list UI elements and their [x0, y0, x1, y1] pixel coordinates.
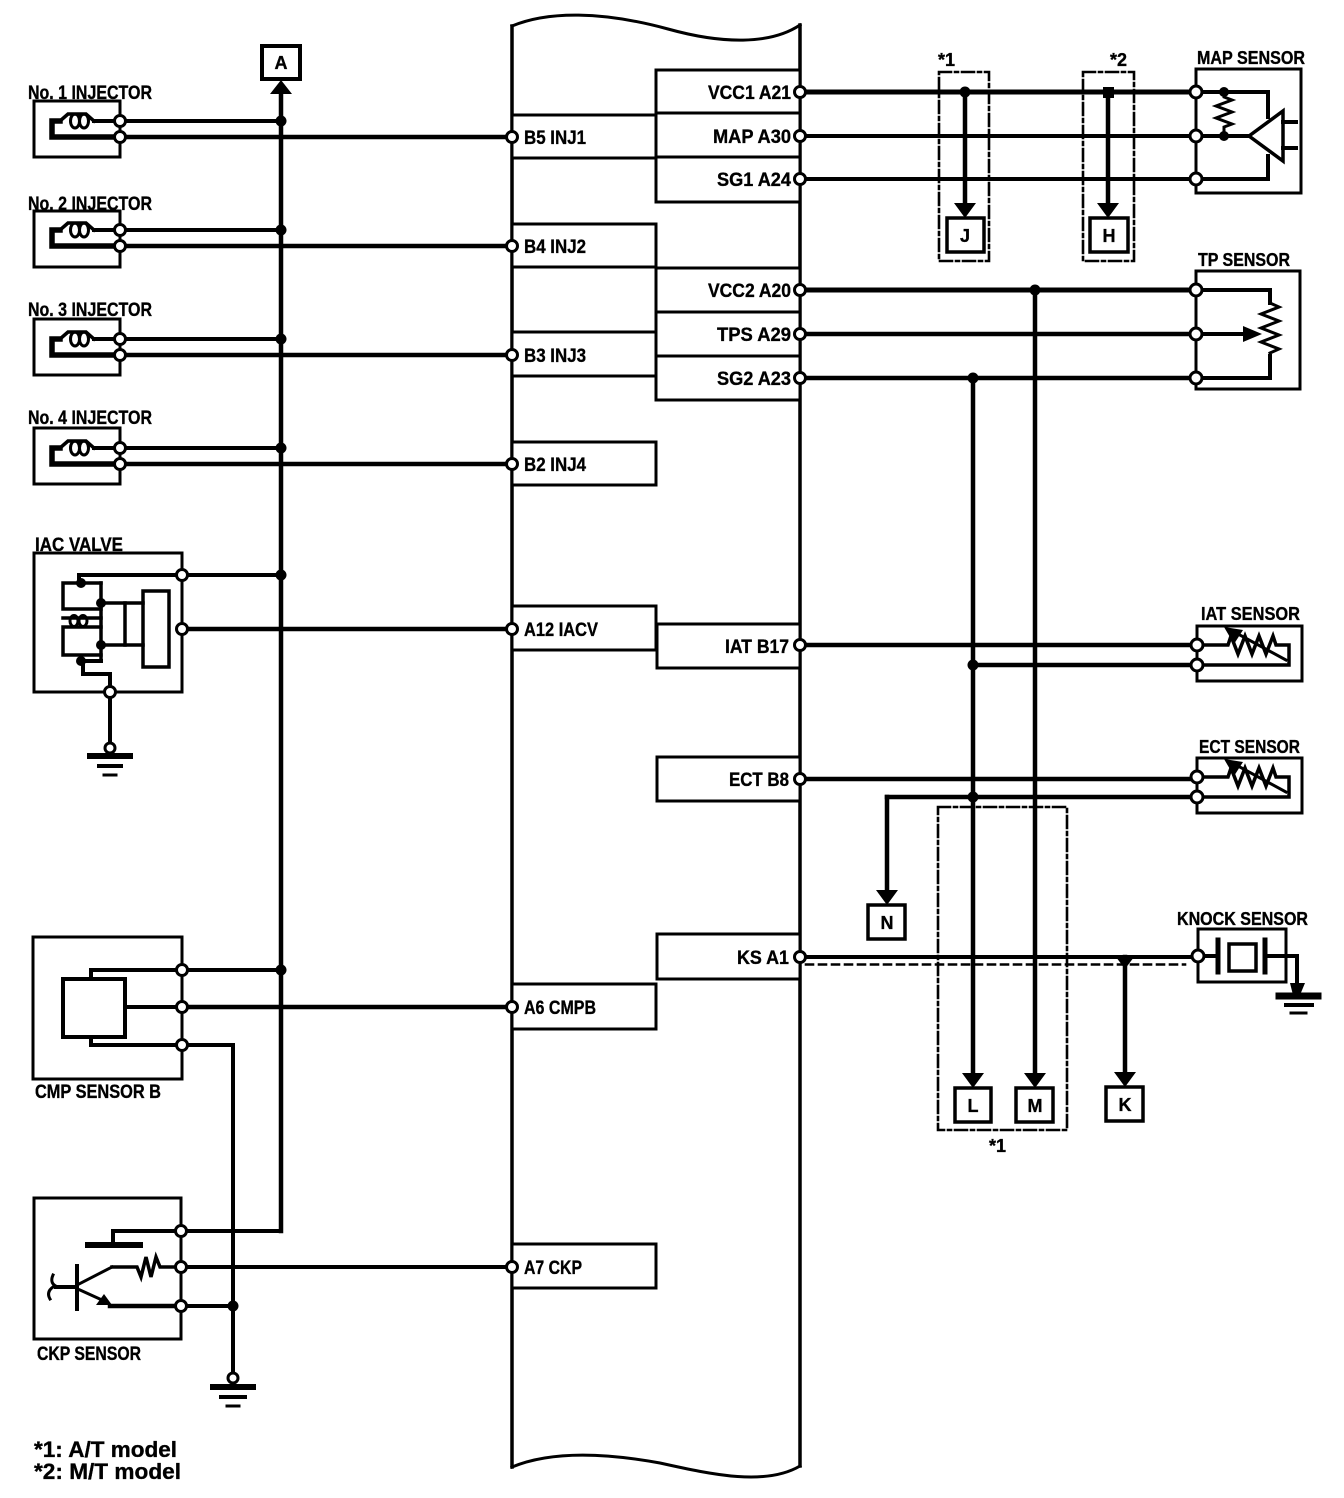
CKP magnet hook: [56, 1285, 77, 1289]
svg-text:MAP SENSOR: MAP SENSOR: [1197, 48, 1305, 68]
wire M drop from VCC2: [1033, 290, 1038, 1074]
IAC valve winding loop B: [63, 627, 101, 655]
pin box A12 IACV: [512, 606, 656, 650]
arrow into N: [876, 890, 898, 905]
pin box B2 INJ4: [512, 442, 656, 485]
CMP sensor B outer box: [33, 937, 182, 1079]
pin box A6 CMPB: [512, 984, 656, 1029]
connector H box: [1090, 218, 1128, 252]
wire injector 3 pin2 to ECM: [126, 353, 506, 358]
svg-text:*1: *1: [989, 1136, 1006, 1156]
MAP sensor amplifier triangle: [1249, 111, 1283, 161]
injector 4 return wire: [52, 448, 112, 464]
svg-text:J: J: [960, 226, 970, 246]
IAC valve cross link: [123, 603, 127, 645]
svg-text:VCC2 A20: VCC2 A20: [708, 281, 791, 302]
ECM terminal ECT B8: [795, 774, 806, 785]
connector M box: [1016, 1088, 1053, 1122]
IAC valve junction a: [76, 578, 86, 588]
ECT sensor thermistor arrow: [1238, 766, 1286, 792]
bus A vertical wire: [279, 90, 284, 1231]
svg-text:B4 INJ2: B4 INJ2: [524, 237, 586, 258]
injector 3 box: [34, 319, 120, 375]
wire KS A1 to knock sensor solid: [806, 955, 1192, 959]
svg-text:B5 INJ1: B5 INJ1: [524, 128, 586, 149]
connector J box: [947, 218, 984, 252]
pin box TPS A29: [656, 312, 800, 356]
TP sensor potentiometer resistor: [1261, 303, 1279, 353]
svg-text:A: A: [275, 53, 288, 73]
IAC valve winding loop A: [63, 583, 101, 609]
pin box KS A1: [657, 934, 800, 979]
pin box VCC1 A21: [656, 70, 800, 113]
wire injector 2 pin1 to bus A: [126, 228, 281, 232]
CKP shield wire: [113, 1231, 181, 1242]
wire VCC1 A21 to MAP sensor: [806, 90, 1190, 95]
ECM/PCM connector band torn top edge: [512, 15, 800, 40]
svg-text:A12 IACV: A12 IACV: [524, 620, 598, 641]
MAP sensor pin VCC1: [1190, 86, 1202, 98]
injector 4 coil L: [94, 446, 114, 450]
injector 2 return wire: [52, 230, 112, 246]
ECM terminal B4 INJ2: [507, 241, 518, 252]
dash-dot frame *1 bottom around L and M: [938, 807, 1067, 1130]
svg-text:MAP A30: MAP A30: [713, 127, 791, 148]
wire IAC top pin to bus A: [188, 573, 281, 577]
ECM terminal B5 INJ1: [507, 132, 518, 143]
wire TPS A29 to TP sensor: [806, 332, 1190, 337]
TP sensor VCC internal wire: [1196, 290, 1270, 303]
TP sensor pin SG2: [1190, 372, 1202, 384]
wire IAC middle pin to A12 IACV: [188, 627, 506, 632]
ECM terminal VCC2 A20: [795, 285, 806, 296]
junction L on SG2 wire: [968, 373, 979, 384]
svg-text:CMP SENSOR B: CMP SENSOR B: [35, 1082, 161, 1103]
knock sensor piezo element: [1204, 954, 1218, 958]
pin box B4 INJ2: [512, 224, 656, 267]
IAC ground stem: [108, 692, 112, 745]
ECT sensor pin signal: [1191, 771, 1203, 783]
ECT sensor thermistor resistor: [1197, 768, 1289, 797]
CKP diagonal upper: [79, 1267, 112, 1284]
IAC valve stub to body lower: [101, 643, 143, 647]
pin box B5 INJ1: [512, 115, 656, 158]
injector 1 pin 2: [115, 132, 126, 143]
wire L drop from SG2: [971, 378, 976, 1074]
svg-text:KNOCK SENSOR: KNOCK SENSOR: [1177, 909, 1308, 929]
ground symbol left rail: [228, 1373, 238, 1383]
IAC valve bottom wire to ground pin: [83, 661, 110, 692]
MAP sensor resistor junction bottom: [1219, 131, 1229, 141]
arrow into M: [1024, 1073, 1046, 1088]
CMP sensor B inner wire top: [91, 970, 182, 979]
junction injector 2 on bus A: [276, 225, 287, 236]
connector K box: [1106, 1087, 1143, 1121]
wire VCC2 A20 to TP sensor: [806, 288, 1190, 293]
pin box ECT B8: [657, 757, 800, 801]
MAP sensor VCC internal wire: [1196, 92, 1268, 117]
wire CKP top pin to bus A: [187, 1229, 281, 1233]
ECM terminal IAT B17: [795, 640, 806, 651]
svg-text:A7 CKP: A7 CKP: [524, 1258, 582, 1279]
junction M on VCC2 wire: [1030, 285, 1041, 296]
dash-dot frame *1 top around J: [939, 72, 989, 261]
wire injector 4 pin2 to ECM: [126, 462, 506, 467]
svg-text:IAT SENSOR: IAT SENSOR: [1201, 604, 1300, 624]
IAC ground symbol: [105, 743, 115, 753]
wire K drop from KS: [1123, 957, 1128, 1073]
arrow up into connector A: [270, 80, 292, 94]
wire CMP top pin to bus A: [188, 968, 281, 972]
ECM terminal B3 INJ3: [507, 350, 518, 361]
wire injector 1 pin1 to bus A: [126, 119, 281, 123]
injector 4 pin 1: [115, 443, 126, 454]
svg-text:TPS A29: TPS A29: [717, 325, 791, 346]
injector 1 pin 1: [115, 116, 126, 127]
connector A box: [262, 46, 300, 79]
svg-text:*1: *1: [938, 50, 955, 70]
wire SG2 A23 to TP sensor: [806, 376, 1190, 381]
CKP pin middle: [176, 1262, 187, 1273]
svg-text:IAT B17: IAT B17: [725, 637, 789, 658]
TP sensor pin VCC2: [1190, 284, 1202, 296]
wire injector 4 pin1 to bus A: [126, 446, 281, 450]
IAC pin top: [177, 570, 188, 581]
svg-text:M: M: [1028, 1096, 1043, 1116]
svg-text:KS A1: KS A1: [737, 948, 789, 969]
arrow into H: [1097, 203, 1119, 218]
ECM terminal SG2 A23: [795, 373, 806, 384]
MAP sensor signal wire: [1196, 134, 1249, 138]
wire injector 3 pin1 to bus A: [126, 337, 281, 341]
arrow into L: [962, 1073, 984, 1088]
CKP pin bottom: [176, 1301, 187, 1312]
MAP sensor internal resistor: [1216, 92, 1232, 132]
CMP sensor B inner wire bottom: [91, 1037, 182, 1045]
injector 2 box: [34, 211, 120, 267]
wire injector 2 pin2 to ECM: [126, 244, 506, 249]
injector 1 box: [34, 101, 120, 157]
svg-text:A6 CMPB: A6 CMPB: [524, 998, 596, 1019]
wire CMP middle pin to A6 CMPB: [188, 1005, 506, 1010]
svg-text:TP SENSOR: TP SENSOR: [1198, 250, 1290, 270]
MAP sensor box: [1196, 69, 1301, 193]
IAC valve junction d: [76, 656, 86, 666]
pin box SG2 A23: [656, 356, 800, 400]
injector 3 pin 1: [115, 334, 126, 345]
svg-text:*2: *2: [1110, 50, 1127, 70]
CKP shield bar: [88, 1242, 140, 1248]
CKP sensor box: [34, 1198, 181, 1339]
IAC valve inner vertical wire: [99, 583, 103, 661]
pin box A7 CKP: [512, 1244, 656, 1288]
CMP sensor B inner wire middle: [125, 1005, 182, 1009]
MAP sensor ground internal wire: [1196, 156, 1268, 179]
ECM terminal A6 CMPB: [507, 1002, 518, 1013]
IAT sensor pin signal: [1191, 639, 1203, 651]
svg-text:CKP SENSOR: CKP SENSOR: [37, 1344, 141, 1365]
ECM terminal KS A1: [795, 952, 806, 963]
wire ECT sensor ground branch: [887, 795, 1191, 800]
ECM/PCM connector band torn bottom edge: [512, 1455, 800, 1477]
MAP sensor pin SG1: [1190, 173, 1202, 185]
ECM/PCM connector band right edge: [798, 25, 802, 1466]
connector L box: [955, 1088, 991, 1122]
injector 2 pin 2: [115, 241, 126, 252]
junction IAT ground on L line: [968, 660, 979, 671]
IAC valve body rectangle: [143, 591, 169, 667]
arrow into J: [954, 203, 976, 218]
CKP pin top: [176, 1226, 187, 1237]
wire injector 1 pin2 to ECM: [126, 135, 506, 140]
wire N branch from ECT ground: [885, 797, 890, 891]
junction K tap on KS wire: [1116, 957, 1134, 969]
junction injector 4 on bus A: [276, 443, 287, 454]
TP sensor box: [1196, 271, 1300, 389]
CKP bottom wire: [110, 1304, 181, 1309]
injector 2 coil L: [94, 228, 114, 232]
IAT sensor box: [1197, 626, 1302, 681]
junction J on VCC1 wire: [960, 87, 971, 98]
wire CKP middle pin to A7 CKP: [187, 1265, 506, 1269]
junction IAC on bus A: [276, 570, 287, 581]
pin box B3 INJ3: [512, 332, 656, 376]
knock sensor box: [1198, 929, 1286, 982]
pin box VCC2 A20: [656, 268, 800, 312]
junction injector 3 on bus A: [276, 334, 287, 345]
pin box SG1 A24: [656, 157, 800, 202]
svg-text:No. 4 INJECTOR: No. 4 INJECTOR: [28, 408, 152, 429]
junction H on VCC1 wire: [1103, 87, 1114, 98]
pin box MAP A30: [656, 113, 800, 157]
svg-text:ECT B8: ECT B8: [729, 770, 789, 791]
TP sensor wiper wire: [1196, 332, 1246, 336]
CKP diagonal lower with arrow: [80, 1290, 102, 1300]
IAC valve junction c: [96, 640, 106, 650]
svg-text:N: N: [881, 913, 894, 933]
svg-text:VCC1 A21: VCC1 A21: [708, 83, 791, 104]
svg-text:*2: M/T model: *2: M/T model: [34, 1459, 181, 1484]
ECM terminal B2 INJ4: [507, 459, 518, 470]
ECM terminal A12 IACV: [507, 624, 518, 635]
pin box IAT B17: [657, 624, 800, 668]
CKP pole piece: [75, 1266, 79, 1309]
wire H drop: [1106, 92, 1111, 204]
arrow into K: [1114, 1072, 1136, 1087]
dash-dot frame *2 around H: [1083, 72, 1134, 261]
injector 1 return wire: [52, 121, 112, 137]
junction CMP on bus A: [276, 965, 287, 976]
junction injector 1 on bus A: [276, 116, 287, 127]
injector 4 pin 2: [115, 459, 126, 470]
svg-text:SG2 A23: SG2 A23: [717, 369, 791, 390]
IAT sensor thermistor arrow: [1238, 634, 1286, 660]
ECM terminal A7 CKP: [507, 1262, 518, 1273]
svg-text:ECT SENSOR: ECT SENSOR: [1199, 737, 1300, 757]
MAP sensor resistor junction top: [1219, 87, 1229, 97]
CMP pin bottom: [177, 1040, 188, 1051]
TP sensor wiper arrow: [1243, 326, 1262, 342]
ECT sensor box: [1197, 758, 1302, 813]
knock sensor pin: [1192, 950, 1204, 962]
IAC ground pin circle: [105, 687, 116, 698]
wire IAT B17 to IAT sensor: [806, 643, 1191, 648]
svg-text:H: H: [1103, 226, 1116, 246]
IAC valve outer box: [34, 553, 182, 692]
injector 1 coil L: [94, 119, 114, 123]
injector 4 box: [34, 428, 120, 484]
ECM/PCM connector band left edge: [510, 26, 514, 1467]
MAP sensor pin MAP: [1190, 130, 1202, 142]
CMP pin top: [177, 965, 188, 976]
CMP pin middle: [177, 1002, 188, 1013]
knock sensor ground symbol: [1290, 983, 1305, 995]
wire MAP A30 to MAP sensor: [806, 134, 1190, 138]
svg-text:L: L: [968, 1096, 979, 1116]
IAT sensor thermistor resistor: [1197, 636, 1289, 665]
injector 3 return wire: [52, 339, 112, 355]
injector 2 pin 1: [115, 225, 126, 236]
MAP sensor amp stub lower: [1283, 146, 1296, 150]
MAP sensor amp stub upper: [1283, 120, 1296, 124]
connector N box: [868, 905, 905, 939]
TP sensor pin TPS: [1190, 328, 1202, 340]
wire CMP bottom pin to ground rail: [188, 1045, 233, 1374]
IAC pin middle: [177, 624, 188, 635]
svg-text:SG1 A24: SG1 A24: [717, 170, 791, 191]
svg-text:B2 INJ4: B2 INJ4: [524, 455, 586, 476]
CMP sensor B element square: [63, 979, 125, 1037]
svg-text:K: K: [1119, 1095, 1132, 1115]
IAC valve stub to body upper: [101, 601, 143, 605]
IAC valve winding coil: [63, 616, 101, 620]
wire SG1 A24 to MAP sensor: [806, 177, 1190, 181]
ECM terminal TPS A29: [795, 329, 806, 340]
wire KS shield dashed: [806, 963, 1185, 966]
ECM terminal SG1 A24: [795, 174, 806, 185]
junction ground rail CKP: [228, 1301, 239, 1312]
knock sensor ground wire: [1265, 956, 1297, 984]
wire J drop: [963, 92, 968, 204]
IAC valve top wire: [79, 575, 182, 583]
wire ECT B8 to ECT sensor: [806, 777, 1191, 782]
ECM terminal VCC1 A21: [795, 87, 806, 98]
ECT sensor pin ground: [1191, 791, 1203, 803]
wire IAT sensor ground branch: [973, 663, 1191, 668]
IAT sensor pin ground: [1191, 659, 1203, 671]
injector 3 coil L: [94, 337, 114, 341]
wire CKP bottom pin to ground rail: [187, 1304, 233, 1308]
injector 3 pin 2: [115, 350, 126, 361]
junction ECT ground on L line: [968, 792, 979, 803]
ECM terminal MAP A30: [795, 131, 806, 142]
TP sensor ground internal wire: [1196, 356, 1270, 378]
svg-text:B3 INJ3: B3 INJ3: [524, 346, 586, 367]
CKP pickup coil: [112, 1257, 181, 1277]
IAC valve junction b: [96, 598, 106, 608]
